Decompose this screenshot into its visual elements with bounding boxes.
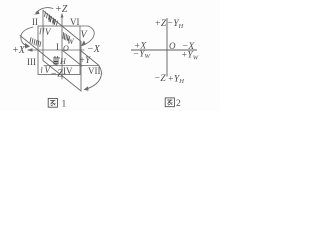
svg-text:−YW: −YW [133,49,151,60]
svg-text:V: V [81,30,89,41]
H plane left edge [20,36,57,66]
svg-text:+X: +X [12,45,26,56]
svg-text:−YH: −YH [167,19,184,30]
H plane front edge [44,65,99,67]
svg-text:O: O [169,41,176,51]
arc arrow right (V-W unfolding) [83,26,95,46]
svg-text:IV: IV [63,66,73,76]
arc arrow top (W plane rotation) [36,8,53,13]
svg-text:V: V [45,27,52,37]
hatch tick before bottom V [41,67,44,73]
V plane top edge extension [80,25,88,27]
hatch on W top edge (upper-left) [45,12,58,25]
fig2 vertical axis [166,18,168,77]
W plane parallelogram [43,11,81,92]
H plane right edge (visible part) [81,51,100,66]
caption fig2 hanzi "tu" (drawn) [165,98,174,107]
svg-text:+Z: +Z [55,4,68,15]
hatch W label center [63,33,70,42]
hatch clump dark (upper-left) [49,16,55,25]
svg-text:1: 1 [62,100,67,110]
Z axis [61,14,63,79]
svg-text:II: II [32,17,38,27]
svg-text:+YH: +YH [168,74,185,85]
svg-text:−X: −X [87,44,101,55]
svg-text:−Z: −Z [51,69,64,80]
svg-text:−Z: −Z [154,74,166,84]
svg-text:+Y: +Y [79,55,91,65]
svg-text:O: O [63,44,69,53]
+Y axis [62,50,82,66]
svg-text:H: H [59,57,67,66]
fig2 horizontal axis [131,49,197,51]
svg-text:2: 2 [176,99,181,109]
svg-text:III: III [27,57,36,67]
+X arrowhead [27,48,33,51]
svg-text:+YW: +YW [181,51,199,62]
+Z arrowhead [61,13,64,18]
arc arrow left [21,27,33,46]
arc arrow bottom-right (H plane unfolding) [85,66,101,90]
hatch left cluster [30,38,41,47]
svg-text:VI: VI [70,17,80,27]
hatch strip V label [40,28,44,34]
svg-text:VII: VII [88,66,101,76]
svg-text:+Z: +Z [155,19,167,29]
caption fig1 hanzi "tu" (drawn) [48,98,57,107]
V plane rectangle [38,26,80,75]
svg-text:I: I [56,42,59,52]
dense character-like blob before H label [54,57,60,65]
X axis [28,49,84,51]
